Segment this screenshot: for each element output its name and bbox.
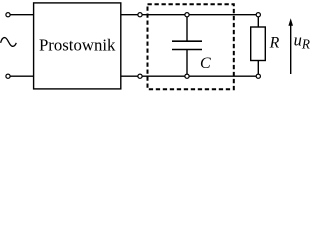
AC source symbol (sine) <box>1 38 17 47</box>
voltage arrow uR shaft <box>290 25 292 75</box>
wire bottom (rectifier to resistor) <box>121 75 257 77</box>
node bottom at dashed-box input <box>138 74 142 78</box>
capacitor C1 top plate <box>172 40 202 42</box>
dashed filter box <box>148 4 234 89</box>
wire top (rectifier to resistor) <box>121 14 256 16</box>
wire bottom-left <box>10 75 33 77</box>
capacitor C1 bottom lead <box>186 50 188 77</box>
svg-text:Prostownik: Prostownik <box>39 35 116 54</box>
terminal resistor bottom <box>256 74 260 78</box>
svg-text:uR: uR <box>294 30 310 51</box>
terminal top-left <box>6 13 10 17</box>
capacitor C1 bottom plate <box>172 49 202 51</box>
capacitor C1 top lead <box>186 15 188 42</box>
terminal resistor top <box>256 13 260 17</box>
rectifier box <box>34 3 121 89</box>
resistor R top lead <box>257 15 259 27</box>
resistor R body <box>251 27 266 61</box>
wire top-left <box>10 14 33 16</box>
svg-text:C: C <box>200 55 211 72</box>
svg-text:R: R <box>269 35 280 52</box>
node capacitor bottom <box>185 74 189 78</box>
node capacitor top <box>185 13 189 17</box>
terminal bottom-left <box>6 74 10 78</box>
voltage arrow uR head <box>288 18 293 26</box>
node top at dashed-box input <box>138 13 142 17</box>
resistor R bottom lead <box>257 61 259 77</box>
